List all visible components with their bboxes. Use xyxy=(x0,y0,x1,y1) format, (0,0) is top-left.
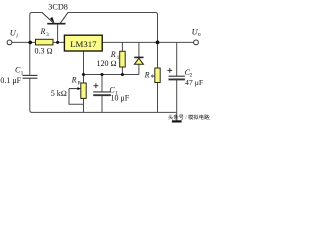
transistor Q1 3CD8 xyxy=(42,13,68,24)
wire R3 to LM317 input xyxy=(53,41,64,43)
svg-text:0.1 μF: 0.1 μF xyxy=(0,76,21,85)
diode D1 xyxy=(134,57,143,64)
capacitor C3 10uF xyxy=(93,92,111,95)
collector leg xyxy=(60,13,68,24)
wire Rstar branch top xyxy=(157,42,159,68)
wire R1 bottom xyxy=(121,67,123,75)
junction dot adj-C3 node xyxy=(101,73,104,76)
plus sign C3 xyxy=(94,83,99,88)
emitter leg xyxy=(42,13,54,24)
junction dot input node xyxy=(28,41,32,45)
wire LM317 output rail to Uo terminal xyxy=(102,41,194,43)
wire diode top xyxy=(138,42,140,57)
resistor R1 xyxy=(120,51,126,67)
wire adj rail xyxy=(84,74,139,76)
svg-text:*: * xyxy=(151,72,155,82)
resistor Rstar xyxy=(155,68,160,83)
svg-text:R: R xyxy=(40,27,46,36)
ground xyxy=(172,120,182,122)
wire R1 top xyxy=(121,42,123,51)
terminal Ui xyxy=(7,40,12,45)
wire pot wiper return xyxy=(69,89,84,105)
svg-text:R: R xyxy=(71,75,77,84)
wire transistor base lead xyxy=(57,24,59,42)
wire diode bottom xyxy=(138,64,140,74)
emitter arrowhead xyxy=(50,17,55,23)
junction dot output node xyxy=(156,41,160,45)
wire Rstar bottom xyxy=(157,83,159,113)
wire input terminal to R3 xyxy=(12,41,36,43)
IC U1 LM317 xyxy=(64,35,102,51)
svg-text:o: o xyxy=(198,32,201,38)
svg-text:R: R xyxy=(110,50,116,59)
capacitor C1 0.1uF xyxy=(23,75,38,78)
svg-text:10 μF: 10 μF xyxy=(111,94,130,103)
wire top rail right segment with corner xyxy=(68,13,158,43)
svg-text:1: 1 xyxy=(117,55,120,61)
svg-text:47 μF: 47 μF xyxy=(185,78,204,87)
svg-text:0.3 Ω: 0.3 Ω xyxy=(35,47,53,56)
svg-text:120 Ω: 120 Ω xyxy=(97,59,117,68)
junction dot adj-pot node xyxy=(82,73,85,76)
capacitor C2 47uF xyxy=(169,76,185,79)
junction dot adj-R1 node xyxy=(121,73,124,76)
svg-text:5 kΩ: 5 kΩ xyxy=(51,89,67,98)
terminal Uo xyxy=(194,40,199,45)
resistor R3 xyxy=(36,39,54,45)
wire pot bottom to rail xyxy=(83,98,85,112)
svg-text:头条号 / 模拟电路y: 头条号 / 模拟电路y xyxy=(168,113,210,121)
svg-text:3: 3 xyxy=(46,32,49,38)
svg-text:R: R xyxy=(144,70,150,79)
svg-text:3CD8: 3CD8 xyxy=(48,2,68,11)
wire C2 top xyxy=(176,42,178,76)
wire C2 bottom to ground xyxy=(176,80,178,121)
wire C3 10uF bottom xyxy=(101,96,103,113)
potentiometer RP xyxy=(81,83,86,98)
svg-text:LM317: LM317 xyxy=(70,39,97,49)
wire C3 10uF top xyxy=(101,75,103,92)
wire top rail left segment with corner xyxy=(30,13,43,43)
wire bottom rail xyxy=(32,111,177,113)
junction dot base node xyxy=(56,41,59,44)
wire pot top xyxy=(83,75,85,84)
pot wiper arrow xyxy=(69,88,79,90)
base bar xyxy=(47,23,65,25)
plus sign C2 xyxy=(167,68,172,73)
wire C1 bottom to bottom rail xyxy=(30,78,32,112)
wire left rail down to C1 xyxy=(29,42,31,75)
svg-text:P: P xyxy=(78,80,81,86)
wire LM317 adj lead down xyxy=(83,51,85,75)
